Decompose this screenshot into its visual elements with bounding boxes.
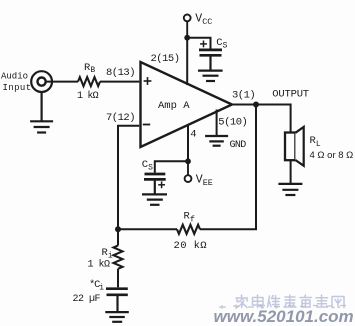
svg-text:5(10): 5(10) — [218, 117, 247, 129]
wire: pin 5 to GND — [216, 110, 218, 136]
svg-text:Amp A: Amp A — [158, 100, 190, 112]
svg-text:1 kΩ: 1 kΩ — [77, 90, 99, 102]
svg-text:20 kΩ: 20 kΩ — [174, 240, 208, 252]
watermark ghost line — [219, 305, 346, 310]
svg-text:www.520101.com: www.520101.com — [214, 307, 354, 326]
svg-text:OUTPUT: OUTPUT — [272, 88, 309, 100]
op-amp - input marker — [143, 124, 150, 126]
watermark — [236, 295, 344, 308]
wire: speaker to ground — [290, 160, 292, 184]
svg-text:RB: RB — [84, 62, 95, 75]
svg-text:Audio: Audio — [1, 72, 28, 82]
capacitor CS (top) — [199, 50, 222, 55]
terminal VEE — [185, 175, 192, 182]
ground GND (pin 5) — [205, 136, 228, 146]
svg-text:VEE: VEE — [196, 174, 213, 189]
resistor Ri — [114, 246, 123, 269]
resistor RB — [78, 77, 100, 86]
op-amp U1 Amp A — [141, 62, 233, 147]
junction: output node — [253, 102, 259, 108]
resistor Rf — [177, 225, 200, 234]
wire: pin 2 to VCC node — [186, 38, 188, 85]
svg-text:7(12): 7(12) — [106, 112, 135, 124]
wire: VCC terminal stem — [186, 21, 188, 37]
svg-text:4: 4 — [190, 129, 196, 141]
wire: Rf to feedback node — [118, 228, 177, 230]
polarity + (CS bottom) — [158, 181, 165, 188]
svg-text:1 kΩ: 1 kΩ — [88, 259, 111, 271]
svg-text:RL: RL — [310, 135, 321, 149]
ground (audio input) — [30, 92, 53, 133]
capacitor CS (bottom) — [144, 174, 166, 179]
label Audio Input — [1, 72, 32, 94]
speaker RL — [285, 127, 304, 166]
wire: VCC node to CS top — [187, 38, 210, 49]
wire: RB to op-amp pin 8 — [100, 81, 139, 83]
polarity + (CS top) — [200, 41, 207, 48]
svg-text:CS: CS — [216, 37, 227, 50]
ground (CS top) — [198, 57, 223, 82]
wire: output node to Rf — [200, 105, 256, 230]
wire: audio input to RB — [46, 81, 78, 83]
svg-text:*Ci: *Ci — [89, 279, 104, 292]
svg-text:4 Ω or 8 Ω: 4 Ω or 8 Ω — [310, 150, 354, 161]
wire: VEE node to CS bottom — [155, 161, 188, 172]
svg-text:VCC: VCC — [195, 13, 212, 28]
capacitor Ci — [106, 289, 128, 295]
svg-text:Ri: Ri — [102, 247, 113, 260]
wire: pin 3 to output and speaker — [232, 105, 291, 133]
svg-text:CS: CS — [142, 159, 153, 172]
wire: feedback node to Ri — [117, 229, 119, 245]
svg-text:22 µF: 22 µF — [73, 294, 101, 305]
svg-text:3(1): 3(1) — [232, 90, 255, 102]
junction: VEE node — [185, 158, 191, 164]
op-amp + input marker — [144, 77, 152, 85]
svg-text:GND: GND — [230, 140, 247, 151]
ground (CS bottom) — [142, 181, 167, 205]
terminal VCC — [184, 15, 191, 22]
svg-text:8(13): 8(13) — [106, 67, 135, 79]
svg-text:2(15): 2(15) — [151, 53, 180, 65]
junction: VCC node — [184, 35, 190, 41]
ground (Ci) — [105, 296, 129, 322]
wire: VEE terminal stem — [187, 161, 189, 175]
wire: pin 7 to feedback node — [118, 126, 139, 230]
junction: feedback node — [115, 226, 121, 232]
ground (speaker) — [278, 184, 302, 195]
svg-text:Rf: Rf — [184, 211, 195, 225]
wire: pin 4 to VEE node — [187, 124, 189, 161]
svg-text:Input: Input — [3, 83, 32, 93]
audio input connector J1 — [31, 71, 52, 92]
wire: Ri to Ci — [117, 269, 119, 288]
